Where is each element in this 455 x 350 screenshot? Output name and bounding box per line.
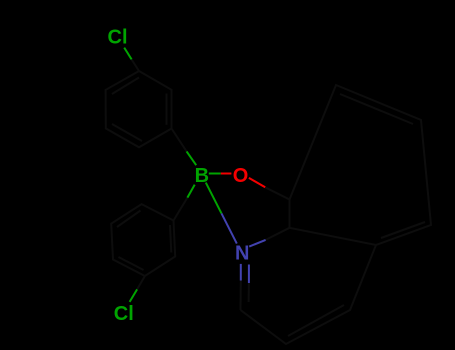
bottom chlorophenyl ring (carbon skeleton, near-black) [111,204,175,276]
wire B to top ring (dark half) [172,129,187,152]
wire O to C8 (dark half) [265,187,289,199]
wire Cl1 to ring (dark half) [132,59,139,71]
svg-text:B: B [195,165,209,187]
wire N=C2 double bond (dark halves) [240,281,242,311]
wire B-O bond red half [221,173,232,175]
svg-text:Cl: Cl [114,303,134,325]
wire B-N bond blue half [222,213,237,243]
wire B-O bond green half [209,173,221,175]
quinoline pyridine ring (carbon skeleton, near-black) [241,245,377,344]
wire N-C8a bond blue half [249,240,265,247]
wire B-N bond green half [206,183,222,214]
wire Cl2 to ring (dark half) [137,276,145,289]
svg-text:Cl: Cl [108,27,128,49]
wire N to C8a (dark half) [266,228,290,240]
wire B-C bond up-left (green half) [187,151,197,165]
wire O-C8 bond red half [249,178,265,187]
wire N=C2 double bond blue halves [240,264,242,281]
wire Cl1-C bond (green half) [124,48,131,60]
svg-text:N: N [235,243,249,265]
svg-text:O: O [233,165,249,187]
wire Cl2-C bond green half [130,289,138,302]
wire B to bottom ring (dark half) [174,198,188,221]
wire B-C bond down-left (green half) [187,185,194,198]
top chlorophenyl ring (carbon skeleton, near-black) [106,71,172,147]
quinoline benzo ring (carbon skeleton, near-black) [290,85,432,245]
